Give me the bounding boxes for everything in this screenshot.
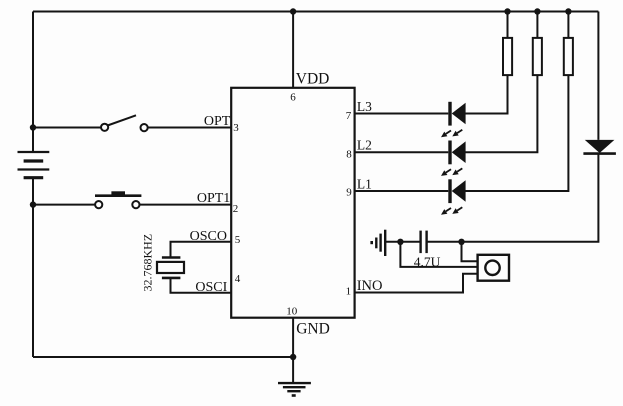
node: R1 top rail junction	[504, 8, 510, 14]
wire right vertical (diode D4 to cap rail)	[427, 154, 598, 242]
wire mic ground branch (node to element mid terminal)	[400, 242, 477, 267]
wire OPT1 segment (node to button)	[33, 204, 95, 206]
microphone B1	[478, 255, 509, 281]
svg-text:5: 5	[235, 234, 241, 246]
svg-text:1: 1	[346, 285, 352, 297]
wire resistor R3 top stub	[567, 12, 569, 38]
ground symbol (GND, earth)	[278, 383, 311, 395]
node: GND bottom rail junction	[290, 354, 296, 360]
node: R3 top rail junction	[565, 8, 571, 14]
LED D3 (L1)	[441, 179, 466, 214]
IC U1	[231, 88, 354, 318]
svg-text:GND: GND	[296, 321, 330, 338]
switch S1 (OPT)	[101, 115, 148, 131]
wire L3 net (pin 7 to LED D1)	[355, 113, 449, 115]
wire resistor R2 top stub	[536, 12, 538, 38]
svg-text:OSCO: OSCO	[190, 229, 227, 244]
svg-text:OPT1: OPT1	[197, 191, 230, 206]
push button S2 (OPT1)	[95, 191, 141, 208]
LED D2 (L2)	[441, 141, 466, 176]
wire L2 net (pin 8 to LED D2)	[355, 151, 449, 153]
wire OSCI (crystal to pin 4)	[171, 278, 232, 293]
svg-text:OPT: OPT	[204, 114, 231, 129]
svg-text:L3: L3	[357, 99, 372, 114]
svg-text:2: 2	[233, 203, 239, 215]
crystal Y1	[157, 258, 184, 278]
battery BT1	[18, 152, 50, 178]
svg-text:8: 8	[346, 148, 352, 160]
wire left vertical lower (battery - down to bottom rail)	[32, 178, 34, 357]
wire OPT segment (node to switch)	[33, 127, 101, 129]
node: R2 top rail junction	[534, 8, 540, 14]
wire mic supply branch (node to element top terminal)	[462, 242, 478, 261]
svg-text:9: 9	[346, 186, 352, 198]
wire ground to capacitor C1	[386, 241, 420, 243]
svg-text:4: 4	[235, 273, 241, 285]
wire top rail	[33, 11, 598, 13]
svg-text:3: 3	[233, 122, 239, 134]
resistor R1	[503, 38, 512, 75]
svg-text:7: 7	[346, 110, 352, 122]
svg-text:INO: INO	[357, 278, 383, 294]
node: OPT left junction	[30, 124, 36, 130]
wire right vertical (top rail to diode D4)	[597, 12, 599, 140]
svg-text:L1: L1	[357, 176, 372, 191]
wire OPT1 segment (button to pin 2)	[139, 204, 231, 206]
resistor R3	[564, 38, 573, 75]
svg-text:OSCI: OSCI	[195, 280, 227, 295]
svg-text:VDD: VDD	[296, 71, 330, 88]
capacitor C1	[421, 231, 427, 254]
diode D4	[583, 140, 616, 154]
wire OSCO (pin 5 to crystal)	[171, 242, 232, 258]
svg-text:32.768KHZ: 32.768KHZ	[141, 234, 155, 292]
wire L1 net (LED D3 to resistor R3)	[466, 75, 569, 191]
ground symbol (analog, sideways)	[372, 230, 386, 256]
wire OPT segment (switch to pin 3)	[148, 127, 232, 129]
wire bottom rail	[33, 356, 293, 358]
wire L2 net (LED D2 to resistor R2)	[466, 75, 538, 152]
wire L3 net (LED D1 to resistor R1)	[466, 75, 508, 113]
wire GND stub (pin 10 to ground)	[292, 318, 294, 383]
wire L1 net (pin 9 to LED D3)	[355, 190, 449, 192]
wire left vertical upper (battery + to top rail)	[32, 12, 34, 153]
svg-text:10: 10	[286, 306, 298, 318]
wire INO net (pin 1 to element bottom terminal)	[355, 274, 478, 293]
LED D1 (L3)	[441, 102, 466, 137]
node: mic supply junction	[458, 239, 464, 245]
wire resistor R1 top stub	[507, 12, 509, 38]
node: analog ground junction	[397, 239, 403, 245]
resistor R2	[533, 38, 542, 75]
node: OPT1 left junction	[30, 201, 36, 207]
svg-text:L2: L2	[357, 138, 372, 153]
svg-text:6: 6	[290, 91, 296, 103]
svg-text:4.7U: 4.7U	[414, 254, 441, 269]
wire VDD stub (top rail to pin 6)	[292, 12, 294, 88]
node: VDD top rail junction	[290, 8, 296, 14]
